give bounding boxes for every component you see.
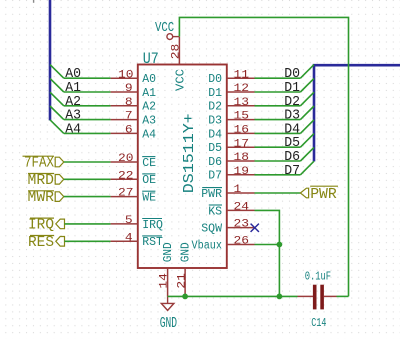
svg-text:DS1511Y+: DS1511Y+ <box>182 113 198 193</box>
svg-text:IRQ: IRQ <box>142 219 163 232</box>
svg-text:D1: D1 <box>208 87 222 100</box>
wire D0 <box>255 77 301 79</box>
bus entry D2 <box>300 92 314 106</box>
svg-text:MWR: MWR <box>28 189 55 206</box>
svg-text:A3: A3 <box>65 109 81 124</box>
svg-text:PWR: PWR <box>201 188 222 201</box>
pin 27 stub <box>111 196 138 198</box>
bus entry D3 <box>300 106 314 120</box>
svg-text:27: 27 <box>118 188 134 200</box>
svg-text:RST: RST <box>142 236 163 249</box>
svg-text:11: 11 <box>234 69 250 81</box>
address bus (left vertical) <box>49 0 52 120</box>
svg-text:A0: A0 <box>65 67 81 82</box>
hierarchical label MRD <box>28 172 64 189</box>
pin 8 stub <box>111 105 138 107</box>
svg-text:18: 18 <box>234 152 250 164</box>
svg-text:24: 24 <box>234 202 250 214</box>
pin 13 stub <box>227 105 255 107</box>
svg-text:15: 15 <box>234 111 250 123</box>
svg-text:10: 10 <box>118 69 134 81</box>
bus entry D1 <box>300 78 314 92</box>
wire D4 <box>255 132 301 134</box>
wire A3 <box>64 119 111 121</box>
junction at pin 21 / GND wire <box>182 294 188 300</box>
svg-text:RES: RES <box>28 234 54 251</box>
svg-text:19: 19 <box>234 166 250 178</box>
svg-text:VCC: VCC <box>174 69 187 91</box>
pin 7 stub <box>111 119 138 121</box>
svg-text:A3: A3 <box>142 115 156 128</box>
pin 20 stub <box>111 161 138 163</box>
wire RST <box>65 240 111 242</box>
pin name OE (active low) <box>142 174 156 187</box>
bus entry D7 <box>300 161 314 175</box>
svg-text:20: 20 <box>118 153 134 165</box>
svg-text:D2: D2 <box>284 95 300 110</box>
bus entry A4 <box>50 120 64 134</box>
wire A2 <box>64 105 111 107</box>
svg-text:D0: D0 <box>284 67 300 82</box>
wire OE <box>64 178 111 180</box>
pin 19 stub <box>227 174 255 176</box>
pin 10 stub <box>111 77 138 79</box>
wire D1 <box>255 91 301 93</box>
svg-text:CE: CE <box>142 157 156 170</box>
wire D6 <box>255 160 301 162</box>
bus entry D6 <box>300 147 314 161</box>
pin 28 stub (VCC top) <box>178 37 180 65</box>
pin name CE (active low) <box>142 157 156 170</box>
svg-text:A2: A2 <box>65 95 81 110</box>
VCC power symbol <box>155 21 179 39</box>
capacitor C14 <box>298 269 349 330</box>
svg-text:MRD: MRD <box>28 172 55 189</box>
IC U7 DS1511Y+ body <box>138 65 227 269</box>
hierarchical label 7FAX <box>23 155 64 172</box>
svg-text:7FAX: 7FAX <box>24 155 54 172</box>
pin 4 stub <box>111 240 138 242</box>
wire PWR <box>255 192 301 194</box>
svg-text:14: 14 <box>159 273 171 289</box>
pin 1 stub <box>227 192 255 194</box>
svg-text:23: 23 <box>234 219 250 231</box>
svg-text:C14: C14 <box>311 316 326 330</box>
svg-text:PWR: PWR <box>310 186 337 203</box>
pin name RST (active low) <box>142 236 163 249</box>
pin 6 stub <box>111 132 138 134</box>
svg-text:D5: D5 <box>208 142 222 155</box>
svg-text:1: 1 <box>234 184 242 196</box>
svg-text:VCC: VCC <box>155 21 174 36</box>
wire GND net (bottom horizontal) <box>168 295 298 297</box>
hierarchical label MWR <box>28 189 64 206</box>
pin 24 stub <box>227 209 255 211</box>
hierarchical label PWR <box>300 186 338 203</box>
svg-text:26: 26 <box>234 236 250 248</box>
pin name PWR (active low) <box>201 188 222 201</box>
svg-text:8: 8 <box>125 97 133 109</box>
wire A1 <box>64 91 111 93</box>
svg-text:WE: WE <box>142 192 156 205</box>
data bus (top right, L-shaped) <box>314 65 400 161</box>
svg-text:22: 22 <box>118 170 134 182</box>
svg-text:D4: D4 <box>284 122 300 137</box>
svg-text:16: 16 <box>234 125 250 137</box>
svg-text:5: 5 <box>125 215 133 227</box>
pin 21 stub (GND) <box>184 268 186 296</box>
pin 14 stub (GND) <box>167 268 169 296</box>
svg-text:A4: A4 <box>142 128 156 141</box>
pin 23 stub <box>227 227 255 229</box>
no-connect X on pin 23 (SQW) <box>251 224 259 232</box>
svg-text:6: 6 <box>125 125 133 137</box>
bus entry A0 <box>50 65 64 79</box>
wire Vbaux <box>255 244 280 246</box>
bus entry A3 <box>50 106 64 120</box>
svg-text:7: 7 <box>125 111 133 123</box>
wire D7 <box>255 174 301 176</box>
pin 15 stub <box>227 119 255 121</box>
svg-text:A1: A1 <box>142 87 156 100</box>
svg-text:U7: U7 <box>143 50 159 68</box>
svg-text:21: 21 <box>176 273 188 289</box>
pin 16 stub <box>227 132 255 134</box>
svg-text:D7: D7 <box>208 170 222 183</box>
svg-text:D3: D3 <box>284 109 300 124</box>
svg-text:D1: D1 <box>284 81 300 96</box>
wire D2 <box>255 105 301 107</box>
svg-text:0.1uF: 0.1uF <box>305 269 331 283</box>
wire CE <box>64 161 111 163</box>
wire VCC net (pin 28 up, across top, down right side) <box>179 17 348 296</box>
wire KS (right then down to GND wire) <box>255 210 280 296</box>
svg-text:D6: D6 <box>208 156 222 169</box>
wire A0 <box>64 77 111 79</box>
wire D5 <box>255 146 301 148</box>
junction KS drop / Vbaux wire <box>277 242 283 248</box>
svg-text:17: 17 <box>234 138 250 150</box>
pin 18 stub <box>227 160 255 162</box>
svg-text:D0: D0 <box>208 73 222 86</box>
pin name WE (active low) <box>142 191 156 204</box>
svg-text:A1: A1 <box>65 81 81 96</box>
bus entry D0 <box>300 65 314 79</box>
stray gray wire stub at top edge <box>33 0 35 3</box>
svg-text:KS: KS <box>208 205 222 218</box>
svg-text:D3: D3 <box>208 115 222 128</box>
pin name IRQ (active low) <box>142 219 163 232</box>
pin name KS (active low) <box>208 205 222 218</box>
pin 22 stub <box>111 178 138 180</box>
svg-text:IRQ: IRQ <box>28 217 54 234</box>
wire WE <box>64 196 111 198</box>
wire A4 <box>64 132 111 134</box>
svg-text:28: 28 <box>171 44 183 60</box>
bus entry D5 <box>300 134 314 148</box>
svg-text:GND: GND <box>162 242 175 262</box>
pin 26 stub <box>227 244 255 246</box>
hierarchical label IRQ <box>28 217 65 234</box>
svg-text:Vbaux: Vbaux <box>192 239 223 252</box>
svg-text:D2: D2 <box>208 101 222 114</box>
pin 17 stub <box>227 146 255 148</box>
pin 5 stub <box>111 223 138 225</box>
wire D3 <box>255 119 301 121</box>
pin 12 stub <box>227 91 255 93</box>
svg-text:9: 9 <box>125 83 133 95</box>
svg-text:4: 4 <box>125 232 133 244</box>
GND power symbol <box>160 296 177 331</box>
bus entry A2 <box>50 92 64 106</box>
svg-text:D6: D6 <box>284 150 300 165</box>
bus entry D4 <box>300 120 314 134</box>
svg-text:OE: OE <box>142 174 156 187</box>
pin 11 stub <box>227 77 255 79</box>
svg-text:A4: A4 <box>65 122 81 137</box>
svg-text:D5: D5 <box>284 136 300 151</box>
svg-text:D4: D4 <box>208 128 222 141</box>
svg-text:13: 13 <box>234 97 250 109</box>
wire IRQ <box>65 223 111 225</box>
svg-text:D7: D7 <box>284 164 300 179</box>
svg-text:A2: A2 <box>142 101 156 114</box>
svg-text:A0: A0 <box>142 73 156 86</box>
junction at KS drop / GND wire <box>277 294 283 300</box>
hierarchical label RES <box>28 234 65 251</box>
pin 9 stub <box>111 91 138 93</box>
svg-text:GND: GND <box>160 316 177 332</box>
svg-text:12: 12 <box>234 83 250 95</box>
svg-text:SQW: SQW <box>201 223 222 236</box>
bus entry A1 <box>50 78 64 92</box>
